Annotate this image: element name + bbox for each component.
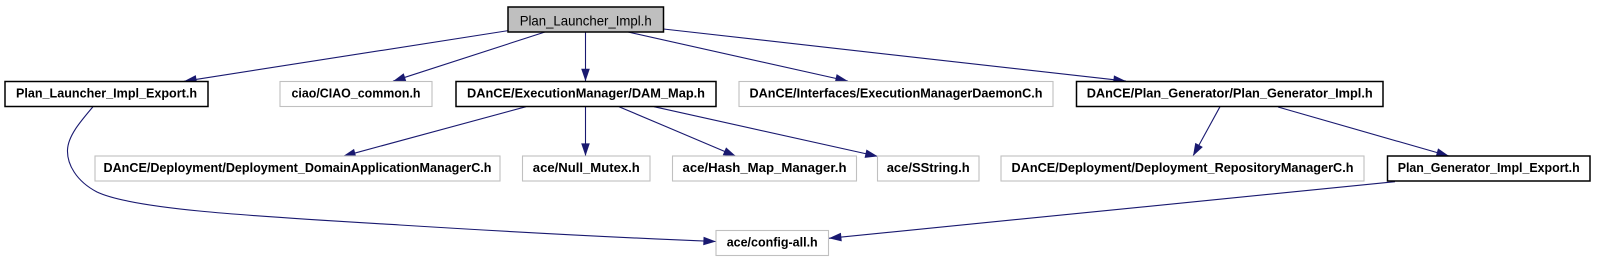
wire Plan_Launcher_Impl.h -> ciao/CIAO_common.h bbox=[393, 32, 545, 81]
wire Plan_Launcher_Impl.h -> DAnCE/ExecutionManager/DAM_Map.h bbox=[585, 32, 587, 81]
svg-text:DAnCE/Deployment/Deployment_Re: DAnCE/Deployment/Deployment_RepositoryMa… bbox=[1012, 160, 1354, 175]
node ciao/CIAO_common.h bbox=[280, 82, 432, 107]
node ace/Null_Mutex.h bbox=[523, 156, 651, 181]
wire DAM_Map.h -> ace/SString.h bbox=[654, 107, 878, 157]
wire Plan_Generator_Impl_Export.h -> ace/config-all.h bbox=[829, 182, 1395, 239]
wire Plan_Generator_Impl.h -> Deployment_RepositoryManagerC.h bbox=[1193, 107, 1220, 156]
svg-text:ace/Null_Mutex.h: ace/Null_Mutex.h bbox=[533, 160, 640, 175]
node ace/SString.h bbox=[878, 156, 980, 181]
node DAnCE/Deployment/Deployment_DomainApplicationManagerC.h bbox=[95, 156, 500, 181]
node ace/Hash_Map_Manager.h bbox=[673, 156, 857, 181]
node Plan_Generator_Impl_Export.h bbox=[1388, 156, 1591, 181]
svg-text:DAnCE/Interfaces/ExecutionMana: DAnCE/Interfaces/ExecutionManagerDaemonC… bbox=[750, 85, 1043, 100]
wire Plan_Launcher_Impl.h -> Plan_Launcher_Impl_Export.h bbox=[184, 31, 509, 82]
svg-text:Plan_Launcher_Impl_Export.h: Plan_Launcher_Impl_Export.h bbox=[16, 85, 197, 100]
wire DAM_Map.h -> ace/Null_Mutex.h bbox=[585, 107, 587, 156]
svg-text:ace/Hash_Map_Manager.h: ace/Hash_Map_Manager.h bbox=[683, 160, 847, 175]
svg-text:DAnCE/Plan_Generator/Plan_Gene: DAnCE/Plan_Generator/Plan_Generator_Impl… bbox=[1087, 85, 1373, 100]
svg-text:DAnCE/ExecutionManager/DAM_Map: DAnCE/ExecutionManager/DAM_Map.h bbox=[467, 85, 705, 100]
svg-text:ciao/CIAO_common.h: ciao/CIAO_common.h bbox=[292, 85, 421, 100]
svg-text:Plan_Generator_Impl_Export.h: Plan_Generator_Impl_Export.h bbox=[1398, 160, 1580, 175]
wire Plan_Generator_Impl.h -> Plan_Generator_Impl_Export.h bbox=[1278, 107, 1449, 156]
wire Plan_Launcher_Impl.h -> DAnCE/Plan_Generator/Plan_Generator_Impl.h bbox=[664, 29, 1127, 81]
node DAnCE/ExecutionManager/DAM_Map.h bbox=[456, 82, 716, 107]
node DAnCE/Deployment/Deployment_RepositoryManagerC.h bbox=[1001, 156, 1364, 181]
node DAnCE/Plan_Generator/Plan_Generator_Impl.h bbox=[1077, 82, 1384, 107]
node ace/config-all.h bbox=[716, 231, 829, 256]
svg-text:Plan_Launcher_Impl.h: Plan_Launcher_Impl.h bbox=[520, 13, 652, 29]
svg-text:ace/SString.h: ace/SString.h bbox=[887, 160, 970, 175]
svg-text:DAnCE/Deployment/Deployment_Do: DAnCE/Deployment/Deployment_DomainApplic… bbox=[104, 160, 492, 175]
node DAnCE/Interfaces/ExecutionManagerDaemonC.h bbox=[739, 82, 1053, 107]
wire DAM_Map.h -> Deployment_DomainApplicationManagerC.h bbox=[343, 107, 526, 157]
wire Plan_Launcher_Impl.h -> DAnCE/Interfaces/ExecutionManagerDaemonC.h bbox=[628, 32, 848, 81]
svg-text:ace/config-all.h: ace/config-all.h bbox=[727, 234, 818, 249]
node Plan_Launcher_Impl.h (root) bbox=[508, 7, 664, 32]
wire Plan_Launcher_Impl_Export.h -> ace/config-all.h bbox=[67, 107, 716, 242]
wire DAM_Map.h -> ace/Hash_Map_Manager.h bbox=[619, 107, 736, 157]
node Plan_Launcher_Impl_Export.h bbox=[5, 82, 208, 107]
